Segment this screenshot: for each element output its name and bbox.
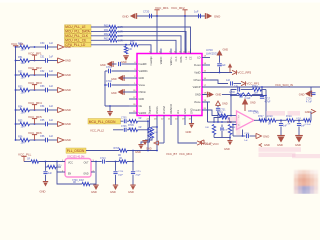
ground port right edge with capacitor C716 xyxy=(299,87,316,103)
wire pin FoutO to opamp xyxy=(202,110,218,116)
ground GND below C710 xyxy=(40,182,49,194)
resistor R61 10R xyxy=(104,28,123,34)
junction output node xyxy=(132,161,134,163)
wire left vertical bus xyxy=(15,47,17,140)
svg-text:GND: GND xyxy=(216,93,222,97)
wire net MCU_PLL_DATA xyxy=(91,30,109,32)
svg-text:GND: GND xyxy=(122,14,128,18)
capacitor C713 series xyxy=(100,158,119,164)
svg-text:LE: LE xyxy=(185,56,188,59)
svg-text:C56: C56 xyxy=(40,135,45,138)
svg-text:Vtune: Vtune xyxy=(139,84,146,87)
junction CPU_PLL_LD xyxy=(125,44,127,46)
svg-text:20pF: 20pF xyxy=(118,174,124,176)
power port VCC_BT arrow xyxy=(154,141,164,145)
svg-text:C713: C713 xyxy=(100,158,106,160)
svg-text:OUT: OUT xyxy=(84,162,89,164)
svg-text:GND: GND xyxy=(224,147,230,151)
resistor R749 output xyxy=(286,116,295,126)
svg-text:1uF: 1uF xyxy=(194,10,199,14)
svg-text:L700: L700 xyxy=(230,91,236,94)
wire pin VddD to VCC_RF5 xyxy=(210,72,232,74)
svg-text:R744: R744 xyxy=(252,86,258,88)
resistor R747 0R output xyxy=(258,116,267,122)
svg-text:GND: GND xyxy=(91,190,97,194)
IC left pin 25 VddRF xyxy=(129,111,147,115)
ground GND below left cluster xyxy=(104,106,113,123)
capacitor C701 at pin 3 xyxy=(105,66,129,73)
inductor L701 output xyxy=(296,118,311,126)
capacitor C711 on GND stub xyxy=(217,56,226,73)
wire VCC vertical into IC pin xyxy=(156,16,158,54)
wire top rail xyxy=(137,15,205,17)
svg-text:1uF: 1uF xyxy=(49,105,54,108)
IC left pin 4 FoutRF xyxy=(129,62,147,66)
capacitor C715 shunt xyxy=(131,162,142,185)
wire to IC pin 26 xyxy=(105,105,129,107)
svg-text:OPA1611: OPA1611 xyxy=(248,110,258,113)
svg-text:C701: C701 xyxy=(106,66,112,69)
ground GND small left of chain xyxy=(259,143,270,147)
IC bottom pin 21 VddVCO xyxy=(168,104,173,120)
svg-text:GND: GND xyxy=(190,108,193,114)
svg-text:4.7uF: 4.7uF xyxy=(306,101,312,103)
svg-text:1uF: 1uF xyxy=(49,85,54,88)
svg-text:GND: GND xyxy=(65,45,71,49)
resistor R744 feedback upper xyxy=(252,86,266,91)
svg-text:1uF: 1uF xyxy=(48,173,53,175)
wire pin 24 to R709 xyxy=(149,121,151,128)
svg-text:GND: GND xyxy=(110,190,116,194)
net text VCC_PLL2 xyxy=(90,128,104,132)
svg-text:GND: GND xyxy=(111,92,117,95)
capacitor C50 1uF xyxy=(40,42,58,49)
svg-text:GND: GND xyxy=(184,108,187,114)
IC left pin 3 VddRF1 xyxy=(129,69,148,73)
svg-text:VddVCO: VddVCO xyxy=(170,104,173,114)
resistor R712 on bottom wire xyxy=(73,182,96,186)
wire feedback left leg xyxy=(230,90,236,116)
net text VCC_BT VCC_RF4 xyxy=(166,152,192,156)
svg-text:GND: GND xyxy=(111,78,117,81)
capacitor C745 feedback lower branch xyxy=(231,93,266,100)
IC U700 LMX2531 body xyxy=(137,54,202,116)
wire pin 20 to VCC_IF port xyxy=(178,121,197,144)
IC top pin 11 CE xyxy=(188,49,193,60)
power port VCC_RF1 bar xyxy=(154,10,159,16)
ground GND below cluster xyxy=(224,138,233,152)
svg-text:GND: GND xyxy=(277,143,283,147)
capacitor C702 at pin 1 xyxy=(105,80,129,87)
IC left pin 28 OSCin xyxy=(129,90,146,94)
wire pin 19 stub xyxy=(184,121,186,126)
capacitor C55 1uF xyxy=(40,119,58,126)
wire opamp output xyxy=(254,119,261,121)
svg-text:GND: GND xyxy=(295,143,301,147)
watermark pink text lines xyxy=(259,147,320,158)
IC bottom pin 20 Vcc xyxy=(175,109,180,120)
capacitor C53 1uF xyxy=(40,85,58,92)
svg-text:VddPLL: VddPLL xyxy=(170,56,173,66)
svg-text:10K: 10K xyxy=(232,127,236,129)
power port VCC_RF5 xyxy=(232,70,252,74)
wire row 2 mid xyxy=(30,60,45,62)
svg-text:GND: GND xyxy=(40,190,46,194)
wire row 6 mid xyxy=(30,123,45,125)
svg-text:10R: 10R xyxy=(21,141,26,144)
resistor R707 vertical xyxy=(150,126,158,138)
ground small arrow near pin VddD xyxy=(228,63,232,72)
wire left row 4 xyxy=(15,89,20,91)
capacitor C749 shunt xyxy=(297,120,306,135)
svg-text:R63: R63 xyxy=(104,37,109,41)
watermark pink bar vertical xyxy=(236,122,240,136)
net label PLL_OSCIN xyxy=(66,148,86,153)
power port VCC_RF2 bar xyxy=(182,10,187,16)
svg-text:GND: GND xyxy=(264,143,270,147)
net label MCU_PLL_LE xyxy=(65,25,92,29)
capacitor C712 1uF at pin CPout xyxy=(210,79,241,86)
svg-text:OSCin: OSCin xyxy=(156,106,159,114)
svg-text:10K: 10K xyxy=(154,132,158,134)
svg-text:1uF: 1uF xyxy=(49,119,54,122)
wire net MCU_PLL_CE xyxy=(91,39,109,41)
ground GND row 6 xyxy=(58,121,71,126)
capacitor C51 1uF xyxy=(40,56,58,63)
IC top pin 8 CLK xyxy=(174,49,178,62)
svg-text:VCC: VCC xyxy=(68,162,73,164)
svg-text:C52: C52 xyxy=(40,70,45,73)
svg-text:GND: GND xyxy=(65,122,71,126)
ground GND below C715 xyxy=(128,185,136,194)
IC bottom pin 24 Bypass xyxy=(146,105,151,120)
resistor R60 10R xyxy=(104,23,123,29)
svg-text:GND: GND xyxy=(223,49,229,52)
svg-text:CLK: CLK xyxy=(175,56,178,61)
svg-text:0R: 0R xyxy=(73,182,76,184)
ground GND row 1 xyxy=(58,44,71,49)
wire MCU_PLL_CLK to IC xyxy=(117,36,181,54)
svg-text:C55: C55 xyxy=(40,119,45,122)
resistor R735 shunt leg xyxy=(228,125,236,135)
svg-text:Vtune: Vtune xyxy=(194,101,201,104)
IC left pin 2 GND xyxy=(129,76,144,80)
svg-text:GND: GND xyxy=(305,110,311,114)
power port VCC_RF6 xyxy=(28,131,42,140)
capacitor C705 on row xyxy=(121,118,128,124)
svg-text:GND: GND xyxy=(100,64,106,67)
svg-text:10R: 10R xyxy=(21,91,26,94)
ground GND below R709 xyxy=(135,139,150,155)
svg-text:C714: C714 xyxy=(118,171,124,173)
wire output chain xyxy=(276,119,287,121)
capacitor C744 feedback upper xyxy=(234,86,253,92)
oscillator module X700 40MHz xyxy=(61,155,96,177)
svg-text:L701: L701 xyxy=(296,118,302,120)
resistor R713 series xyxy=(119,158,133,163)
resistor R710 1R xyxy=(27,158,65,163)
svg-text:1uF: 1uF xyxy=(234,86,239,88)
wire pin Vtune to opamp minus xyxy=(202,102,208,122)
wire oscillator output xyxy=(95,161,102,163)
junction top rail B xyxy=(184,15,186,17)
svg-text:1.7nH: 1.7nH xyxy=(305,124,311,126)
watermark pink bar 1 xyxy=(227,111,300,121)
net label MCU_PLL_DATA xyxy=(65,29,92,33)
resistor R54 10R xyxy=(18,106,30,115)
svg-text:C53: C53 xyxy=(40,85,45,88)
ground GND up arrow at x218 xyxy=(216,101,228,106)
IC right pin 13 LD xyxy=(197,56,210,60)
svg-text:CE: CE xyxy=(189,56,192,60)
inductor L700 on rail xyxy=(222,91,262,96)
capacitor C746 1uF at plus input xyxy=(233,133,256,142)
IC bottom pin 23 OSCin xyxy=(154,106,159,120)
svg-text:VCC_BT: VCC_BT xyxy=(166,152,177,156)
wire mid rail xyxy=(208,121,237,123)
svg-text:GND: GND xyxy=(299,92,305,96)
svg-text:10R: 10R xyxy=(21,62,26,65)
net label MCU_PLL_CE xyxy=(65,38,92,42)
resistor R733 bypass loop xyxy=(214,115,230,122)
svg-text:MCU_PLL_CLK: MCU_PLL_CLK xyxy=(65,34,89,38)
svg-text:GND: GND xyxy=(250,102,256,105)
svg-text:C54: C54 xyxy=(40,105,45,108)
capacitor C717 4.7uF shunt xyxy=(260,95,271,104)
resistor R52 10R xyxy=(18,71,30,80)
wire crystal supply xyxy=(24,161,31,163)
net label CPU_PLL_LD xyxy=(65,43,92,47)
wire left cluster vertical xyxy=(104,71,106,106)
resistor R708 0R on row xyxy=(114,148,158,157)
svg-text:1uF: 1uF xyxy=(49,42,54,45)
net VCC_SCO_IN rail xyxy=(202,83,320,87)
ground GND at pin 18 xyxy=(202,92,221,98)
svg-text:GND: GND xyxy=(65,73,71,77)
wire MCU_PLL_DATA to IC xyxy=(117,31,186,53)
svg-text:Bypass: Bypass xyxy=(148,105,151,114)
svg-text:C51: C51 xyxy=(40,56,45,59)
IC right pin 19 Vtune xyxy=(194,100,210,104)
wire vcc tune rail vertical xyxy=(207,102,209,122)
svg-text:C720: C720 xyxy=(143,10,150,14)
svg-text:1K: 1K xyxy=(220,115,223,117)
op-amp U730 triangle xyxy=(237,110,259,129)
power port VCC_RF2 xyxy=(28,66,42,75)
ground GND at IC pin FoutRF xyxy=(100,61,129,67)
svg-text:0R: 0R xyxy=(268,124,271,126)
svg-text:VCC_RF5: VCC_RF5 xyxy=(238,71,252,75)
svg-text:0R: 0R xyxy=(139,127,142,129)
svg-text:MCU_PLL_OSCIN: MCU_PLL_OSCIN xyxy=(89,120,116,124)
svg-text:PLL_OSCIN: PLL_OSCIN xyxy=(67,149,85,153)
svg-text:GND: GND xyxy=(65,59,71,63)
svg-text:OSCin: OSCin xyxy=(139,91,147,94)
IC right pin 14 FLout xyxy=(194,63,210,67)
wire left row 1 xyxy=(15,46,20,48)
svg-text:DATA: DATA xyxy=(180,56,183,63)
svg-text:10R: 10R xyxy=(21,111,26,114)
svg-text:1R: 1R xyxy=(27,158,30,160)
svg-text:0R: 0R xyxy=(119,158,122,160)
power net VCC_PLL xyxy=(18,153,32,162)
capacitor C734 shunt leg xyxy=(220,125,228,138)
capacitor C731 below GND arrow xyxy=(216,106,226,123)
svg-text:GND: GND xyxy=(139,77,145,80)
ground GND solid below C749 xyxy=(295,136,303,148)
ground GND row 5 xyxy=(58,107,71,112)
svg-text:1nF: 1nF xyxy=(224,129,228,131)
ground GND below R64 xyxy=(121,56,129,64)
wire row 3 mid xyxy=(30,74,45,76)
svg-text:1uF: 1uF xyxy=(49,56,54,59)
ground GND at IC left pin 28 xyxy=(111,89,129,95)
resistor R705 on row xyxy=(127,118,148,123)
resistor R56 10R xyxy=(18,136,30,145)
wire MCU_PLL_CE to IC xyxy=(117,40,176,53)
wire MCU_PLL_LE to IC xyxy=(117,27,191,54)
svg-text:GND: GND xyxy=(214,14,220,18)
svg-text:0R: 0R xyxy=(139,118,142,120)
wire row 5 mid xyxy=(30,109,45,111)
IC left pin 26 CE xyxy=(129,104,142,108)
wire net MCU_PLL_LE xyxy=(91,26,109,28)
wire CPU_PLL_LD to IC pin xyxy=(138,45,151,54)
IC left pin 27 GND xyxy=(129,97,144,101)
svg-text:MCU_PLL_DATA: MCU_PLL_DATA xyxy=(65,29,90,33)
ground GND right of top rail xyxy=(205,13,220,19)
svg-text:R708: R708 xyxy=(114,148,120,150)
wire to GND port top right xyxy=(310,112,312,121)
IC bottom pin 19 GND xyxy=(182,108,187,120)
ground port at opamp plus input xyxy=(227,121,233,124)
resistor R62 10R xyxy=(104,32,123,38)
IC top pin 7 VddPLL xyxy=(169,49,173,66)
power port VCC_RF1 xyxy=(28,51,42,60)
svg-text:VddD: VddD xyxy=(194,72,200,75)
svg-text:FLout: FLout xyxy=(194,64,201,67)
svg-text:VCC_SCO_IN: VCC_SCO_IN xyxy=(275,83,293,87)
svg-text:10R: 10R xyxy=(21,125,26,128)
svg-text:GND: GND xyxy=(186,130,192,134)
IC right pin 16 CPout xyxy=(194,78,210,82)
ground GND below pin 18 xyxy=(186,121,195,135)
ground GND left of top rail xyxy=(122,13,136,19)
svg-text:GND: GND xyxy=(83,173,88,175)
ground GND below C714 xyxy=(110,185,118,194)
svg-text:1uF: 1uF xyxy=(49,135,54,138)
capacitor C721 1uF on top rail xyxy=(194,10,200,19)
svg-text:MCU_PLL_LE: MCU_PLL_LE xyxy=(65,25,85,29)
junction C714 node xyxy=(115,161,117,163)
ground GND row 2 xyxy=(58,58,71,63)
svg-text:R748: R748 xyxy=(267,116,273,118)
svg-text:VCC_RF4: VCC_RF4 xyxy=(179,152,192,156)
svg-text:1nF: 1nF xyxy=(283,126,288,128)
svg-text:VddRF: VddRF xyxy=(160,56,163,64)
wire oscillator net vertical xyxy=(147,120,149,150)
resistor R711 below xyxy=(46,162,63,169)
power port VCC_VCO xyxy=(200,140,220,146)
svg-text:1uF: 1uF xyxy=(244,140,248,142)
IC right pin 18 GND xyxy=(195,93,210,97)
svg-text:FoutRF: FoutRF xyxy=(139,63,148,66)
svg-text:GND: GND xyxy=(263,135,269,139)
svg-text:GND: GND xyxy=(195,94,201,97)
svg-text:R747: R747 xyxy=(258,116,264,118)
capacitor C710 shunt xyxy=(43,167,52,181)
power port VCC_RF5 xyxy=(28,115,42,124)
svg-text:Vcc: Vcc xyxy=(177,109,180,114)
ground port arrow top right xyxy=(305,109,316,114)
svg-text:R65: R65 xyxy=(130,41,135,44)
wire pin 23 OSCin net down xyxy=(156,121,158,151)
wire CPU_PLL_LD xyxy=(91,44,130,46)
svg-text:C717: C717 xyxy=(265,98,271,100)
svg-text:10K: 10K xyxy=(128,48,133,51)
svg-text:C706: C706 xyxy=(121,126,127,128)
wire PLL_OSCIN row xyxy=(86,150,119,152)
wire left row 2 xyxy=(15,60,20,62)
IC right pin 20 FoutO xyxy=(194,108,210,112)
svg-text:R749: R749 xyxy=(286,116,292,118)
ground GND at IC left pin 2 xyxy=(111,75,129,81)
wire pin 21 stub xyxy=(170,121,172,126)
svg-text:EN: EN xyxy=(68,173,72,175)
svg-text:C50: C50 xyxy=(40,42,45,45)
resistor R50 10R xyxy=(18,43,30,52)
wire pin 22 to VCC_BT port xyxy=(163,121,165,144)
ground GND below R707 xyxy=(142,138,152,151)
capacitor C52 1uF xyxy=(40,70,58,77)
wire row 7 mid xyxy=(30,139,45,141)
svg-text:C705: C705 xyxy=(121,118,127,120)
svg-text:GND: GND xyxy=(65,108,71,112)
power net labels VCC_RF1 VCC_RF2 xyxy=(155,6,185,10)
svg-text:1uF: 1uF xyxy=(49,70,54,73)
svg-text:C715: C715 xyxy=(136,171,142,173)
capacitor C54 1uF xyxy=(40,105,58,112)
wire left row 7 xyxy=(15,139,20,141)
capacitor C56 1uF xyxy=(40,135,58,142)
resistor R731 to opamp minus input xyxy=(217,111,237,117)
capacitor C714 shunt xyxy=(113,162,124,185)
resistor R55 10R xyxy=(18,120,30,129)
svg-text:VddRF: VddRF xyxy=(139,112,147,115)
wire row 4 mid xyxy=(30,89,45,91)
ground GND solid below C748 xyxy=(277,136,285,148)
wire opamp plus input xyxy=(232,124,236,136)
svg-text:GND: GND xyxy=(139,98,145,101)
power port VCC_IF arrow xyxy=(197,141,212,146)
svg-text:FoutO: FoutO xyxy=(194,109,201,112)
wire left row 5 xyxy=(15,109,20,111)
wire left row 3 xyxy=(15,74,20,76)
wire left row 6 xyxy=(15,123,20,125)
net label MCU_PLL_CLK xyxy=(65,34,92,38)
wire oscillator left leg xyxy=(57,162,82,185)
ground up arrow opamp supply xyxy=(242,98,256,111)
IC top pin 9 DATA xyxy=(179,49,183,63)
ground GND row 4 xyxy=(58,87,71,92)
ground GND below output junction xyxy=(91,162,99,195)
IC designator U700 LMX2531LQ xyxy=(206,48,223,55)
IC right pin 15 VddD xyxy=(194,71,210,75)
resistor R63 10R xyxy=(104,37,123,43)
svg-text:R61: R61 xyxy=(104,28,109,32)
resistor R65 series xyxy=(130,41,138,47)
svg-text:LD: LD xyxy=(197,57,200,60)
